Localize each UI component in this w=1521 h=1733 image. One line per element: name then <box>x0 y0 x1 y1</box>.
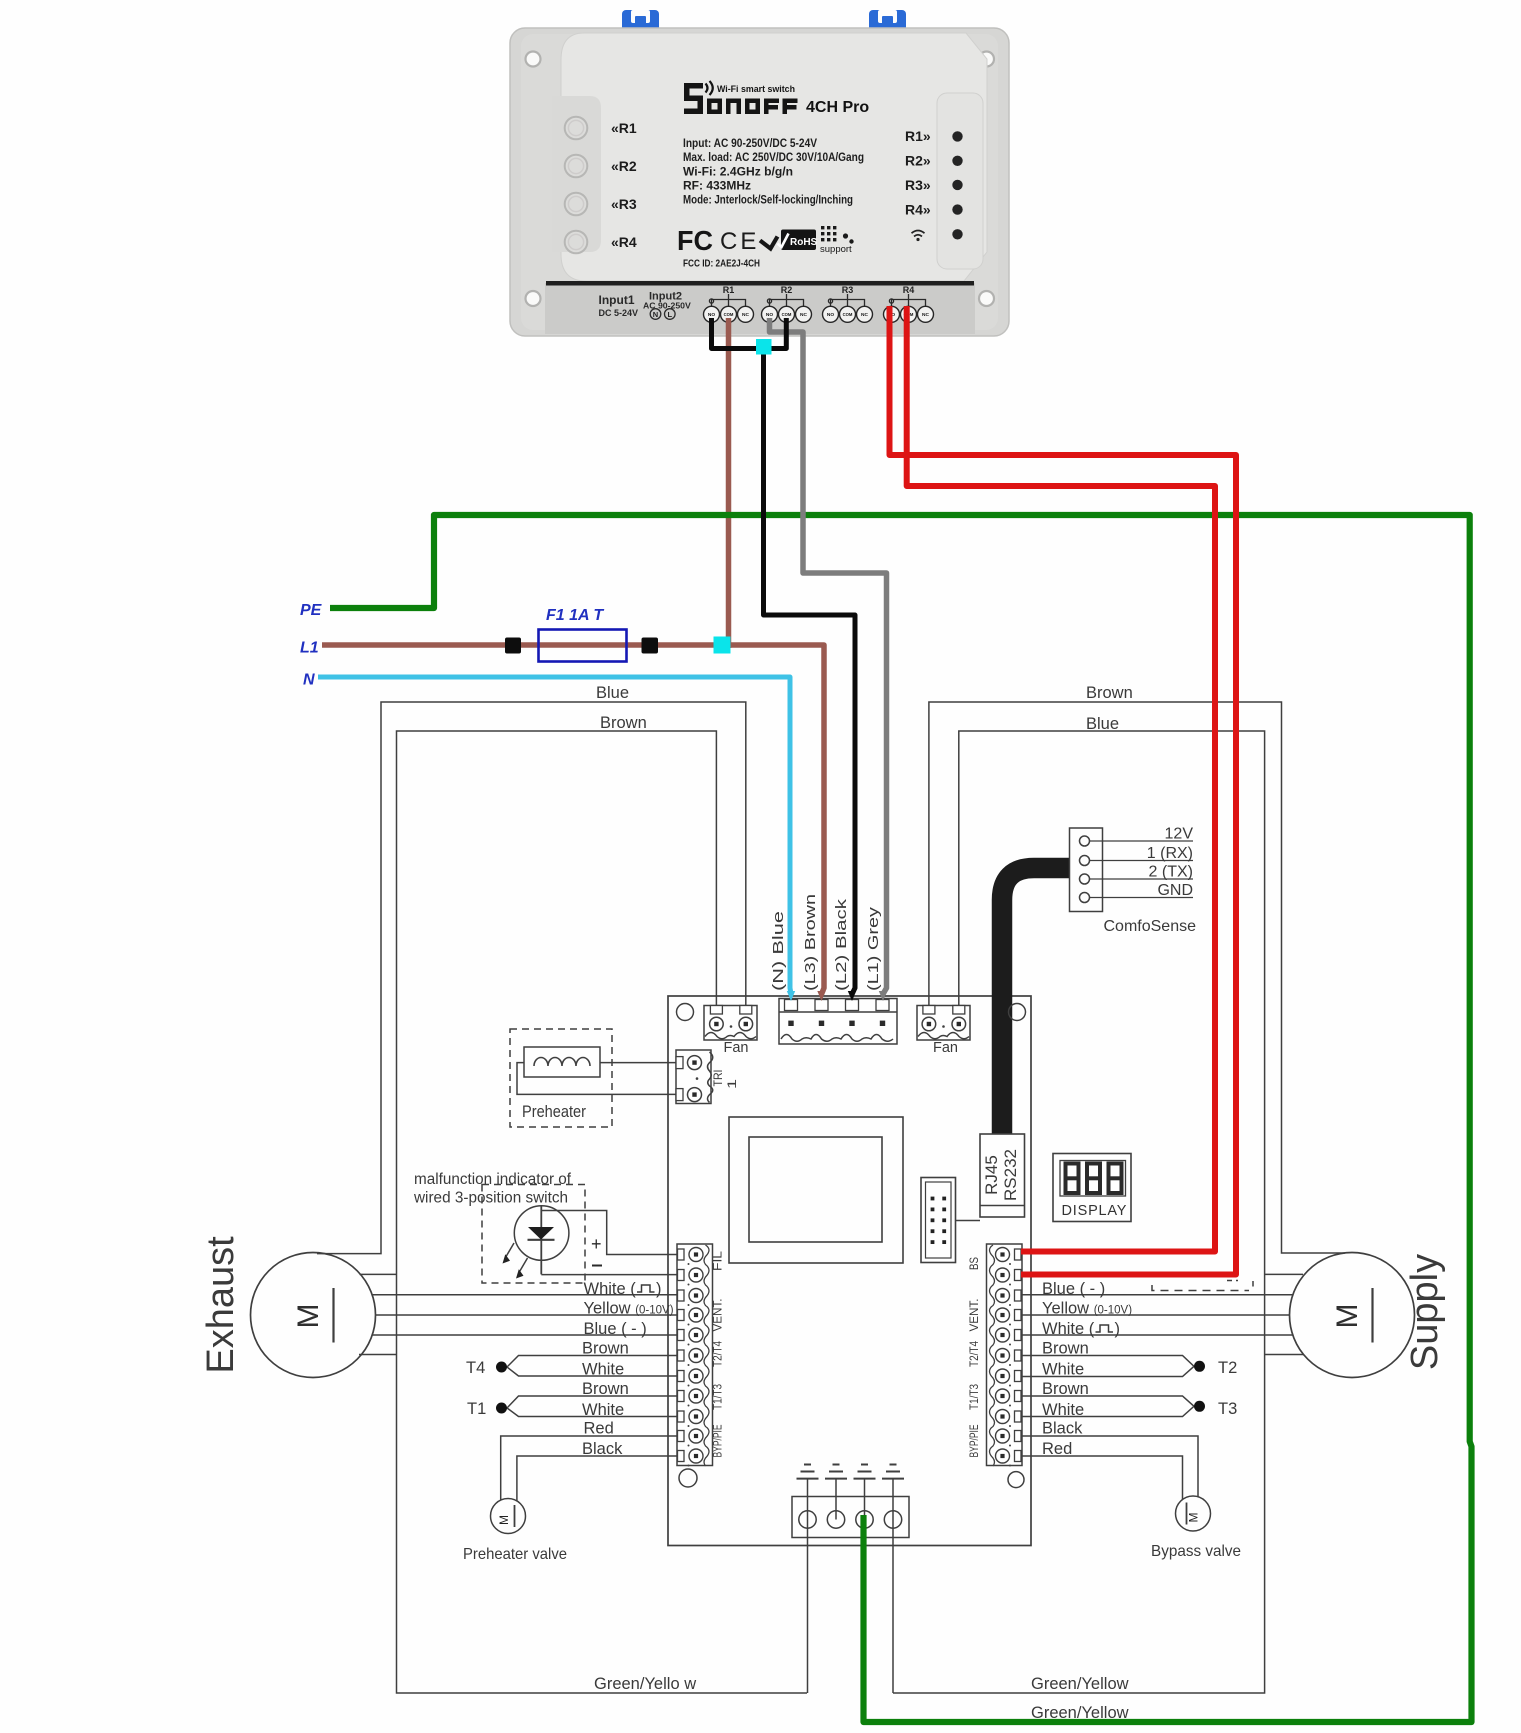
svg-text:T1: T1 <box>467 1400 486 1418</box>
svg-text:CE: CE <box>720 228 759 255</box>
svg-text:4CH Pro: 4CH Pro <box>806 99 869 116</box>
svg-text:): ) <box>656 1280 662 1298</box>
svg-text:1 (RX): 1 (RX) <box>1147 845 1193 862</box>
svg-text:Input1: Input1 <box>599 293 635 307</box>
svg-text:R4»: R4» <box>905 202 931 218</box>
svg-text:Green/Yello w: Green/Yello w <box>594 1675 696 1693</box>
svg-text:NC: NC <box>922 312 929 318</box>
svg-text:White: White <box>1042 1361 1084 1379</box>
svg-text:White: White <box>582 1361 624 1379</box>
svg-text:NC: NC <box>800 312 807 318</box>
svg-text:COM: COM <box>724 312 734 317</box>
svg-text:N: N <box>303 672 315 689</box>
svg-text:2 (TX): 2 (TX) <box>1149 864 1193 881</box>
svg-text:NC: NC <box>861 312 868 318</box>
svg-text:L1: L1 <box>300 640 319 657</box>
svg-text:T1/T3: T1/T3 <box>967 1384 981 1410</box>
svg-text:Brown: Brown <box>1042 1340 1089 1358</box>
svg-text:ComfoSense: ComfoSense <box>1104 918 1197 935</box>
svg-text:RJ45: RJ45 <box>982 1155 1001 1195</box>
svg-text:BYP/PIE: BYP/PIE <box>711 1425 725 1458</box>
svg-text:R2: R2 <box>781 285 793 295</box>
svg-text:Wi-Fi: 2.4GHz b/g/n: Wi-Fi: 2.4GHz b/g/n <box>683 165 793 179</box>
svg-text:NC: NC <box>742 312 749 318</box>
svg-text:M: M <box>1187 1513 1201 1523</box>
svg-text:Brown: Brown <box>1086 684 1133 702</box>
svg-text:malfunction indicator of: malfunction indicator of <box>414 1171 572 1188</box>
svg-text:R3: R3 <box>842 285 854 295</box>
svg-text:«R4: «R4 <box>611 234 637 250</box>
svg-text:PE: PE <box>300 602 323 619</box>
svg-text:RF: 433MHz: RF: 433MHz <box>683 178 751 192</box>
svg-text:«R1: «R1 <box>611 120 637 136</box>
svg-text:(L1) Grey: (L1) Grey <box>865 906 882 991</box>
svg-text:F1 1A T: F1 1A T <box>546 607 604 624</box>
svg-text:L: L <box>668 310 673 319</box>
svg-text:R3»: R3» <box>905 177 931 193</box>
svg-text:RS232: RS232 <box>1001 1149 1020 1201</box>
svg-text:NO: NO <box>827 312 834 318</box>
svg-text:NO: NO <box>708 312 715 318</box>
svg-text:T1/T3: T1/T3 <box>711 1384 725 1410</box>
svg-text:Red: Red <box>1042 1440 1072 1458</box>
svg-text:Black: Black <box>582 1440 623 1458</box>
svg-text:Supply: Supply <box>1404 1254 1446 1370</box>
svg-text:Green/Yellow: Green/Yellow <box>1031 1675 1129 1693</box>
svg-text:VENT.: VENT. <box>967 1299 981 1332</box>
svg-text:Blue ( - ): Blue ( - ) <box>1042 1280 1105 1298</box>
svg-text:1: 1 <box>725 1079 739 1089</box>
svg-text:R4: R4 <box>903 285 915 295</box>
svg-text:FC: FC <box>677 225 713 256</box>
svg-text:COM: COM <box>782 312 792 317</box>
svg-text:DC 5-24V: DC 5-24V <box>599 308 639 318</box>
svg-text:TRI: TRI <box>711 1070 725 1087</box>
svg-text:Wi-Fi smart switch: Wi-Fi smart switch <box>717 84 795 95</box>
svg-text:N: N <box>653 310 658 319</box>
svg-text:(N) Blue: (N) Blue <box>770 911 787 991</box>
svg-text:White: White <box>1042 1401 1084 1419</box>
svg-text:Fan: Fan <box>724 1040 749 1056</box>
svg-text:White: White <box>582 1401 624 1419</box>
svg-text:(L2) Black: (L2) Black <box>833 898 850 991</box>
svg-text:Red: Red <box>584 1420 614 1438</box>
svg-text:BYP/PIE: BYP/PIE <box>967 1425 981 1458</box>
svg-text:T2/T4: T2/T4 <box>967 1341 981 1367</box>
svg-text:White (: White ( <box>584 1280 637 1298</box>
svg-text:T3: T3 <box>1218 1400 1237 1418</box>
svg-text:«R3: «R3 <box>611 196 637 212</box>
svg-text:M: M <box>292 1304 325 1329</box>
svg-text:T2/T4: T2/T4 <box>711 1341 725 1367</box>
svg-text:R1»: R1» <box>905 128 931 144</box>
svg-text:M: M <box>497 1515 511 1525</box>
svg-text:Brown: Brown <box>1042 1380 1089 1398</box>
svg-text:BS: BS <box>967 1257 981 1270</box>
svg-text:Exhaust: Exhaust <box>200 1236 242 1374</box>
svg-text:Black: Black <box>1042 1420 1083 1438</box>
svg-text:): ) <box>1115 1320 1121 1338</box>
svg-text:+: + <box>591 1234 602 1254</box>
svg-text:Fan: Fan <box>933 1040 958 1056</box>
svg-text:DISPLAY: DISPLAY <box>1062 1203 1128 1219</box>
svg-text:FIL: FIL <box>711 1251 725 1271</box>
svg-text:R1: R1 <box>723 285 735 295</box>
svg-text:Blue ( - ): Blue ( - ) <box>584 1320 647 1338</box>
svg-text:T2: T2 <box>1218 1359 1237 1377</box>
svg-text:Blue: Blue <box>1086 715 1119 733</box>
svg-text:FCC ID: 2AE2J-4CH: FCC ID: 2AE2J-4CH <box>683 259 760 270</box>
svg-text:Brown: Brown <box>582 1340 629 1358</box>
svg-text:«R2: «R2 <box>611 158 637 174</box>
svg-text:(L3) Brown: (L3) Brown <box>802 894 819 991</box>
svg-text:12V: 12V <box>1165 826 1194 843</box>
svg-text:M: M <box>1331 1304 1364 1329</box>
svg-text:support: support <box>820 244 852 255</box>
svg-text:Mode: Jnterlock/Self-locking/I: Mode: Jnterlock/Self-locking/Inching <box>683 192 853 206</box>
svg-text:NO: NO <box>766 312 773 318</box>
svg-text:Brown: Brown <box>600 714 647 732</box>
svg-text:Max. load: AC 250V/DC 30V/10A/: Max. load: AC 250V/DC 30V/10A/Gang <box>683 150 864 164</box>
svg-text:Preheater valve: Preheater valve <box>463 1546 567 1563</box>
svg-text:VENT.: VENT. <box>711 1299 725 1332</box>
svg-text:Input: AC 90-250V/DC 5-24V: Input: AC 90-250V/DC 5-24V <box>683 136 817 150</box>
svg-text:Blue: Blue <box>596 684 629 702</box>
svg-text:R2»: R2» <box>905 153 931 169</box>
svg-text:Bypass valve: Bypass valve <box>1151 1543 1241 1560</box>
svg-text:COM: COM <box>843 312 853 317</box>
svg-text:Preheater: Preheater <box>522 1103 586 1121</box>
svg-text:T4: T4 <box>466 1359 485 1377</box>
svg-text:Brown: Brown <box>582 1380 629 1398</box>
svg-text:wired 3-position switch: wired 3-position switch <box>413 1190 568 1207</box>
svg-text:GND: GND <box>1157 882 1193 899</box>
svg-text:RoHS: RoHS <box>790 237 818 248</box>
svg-text:White (: White ( <box>1042 1320 1095 1338</box>
